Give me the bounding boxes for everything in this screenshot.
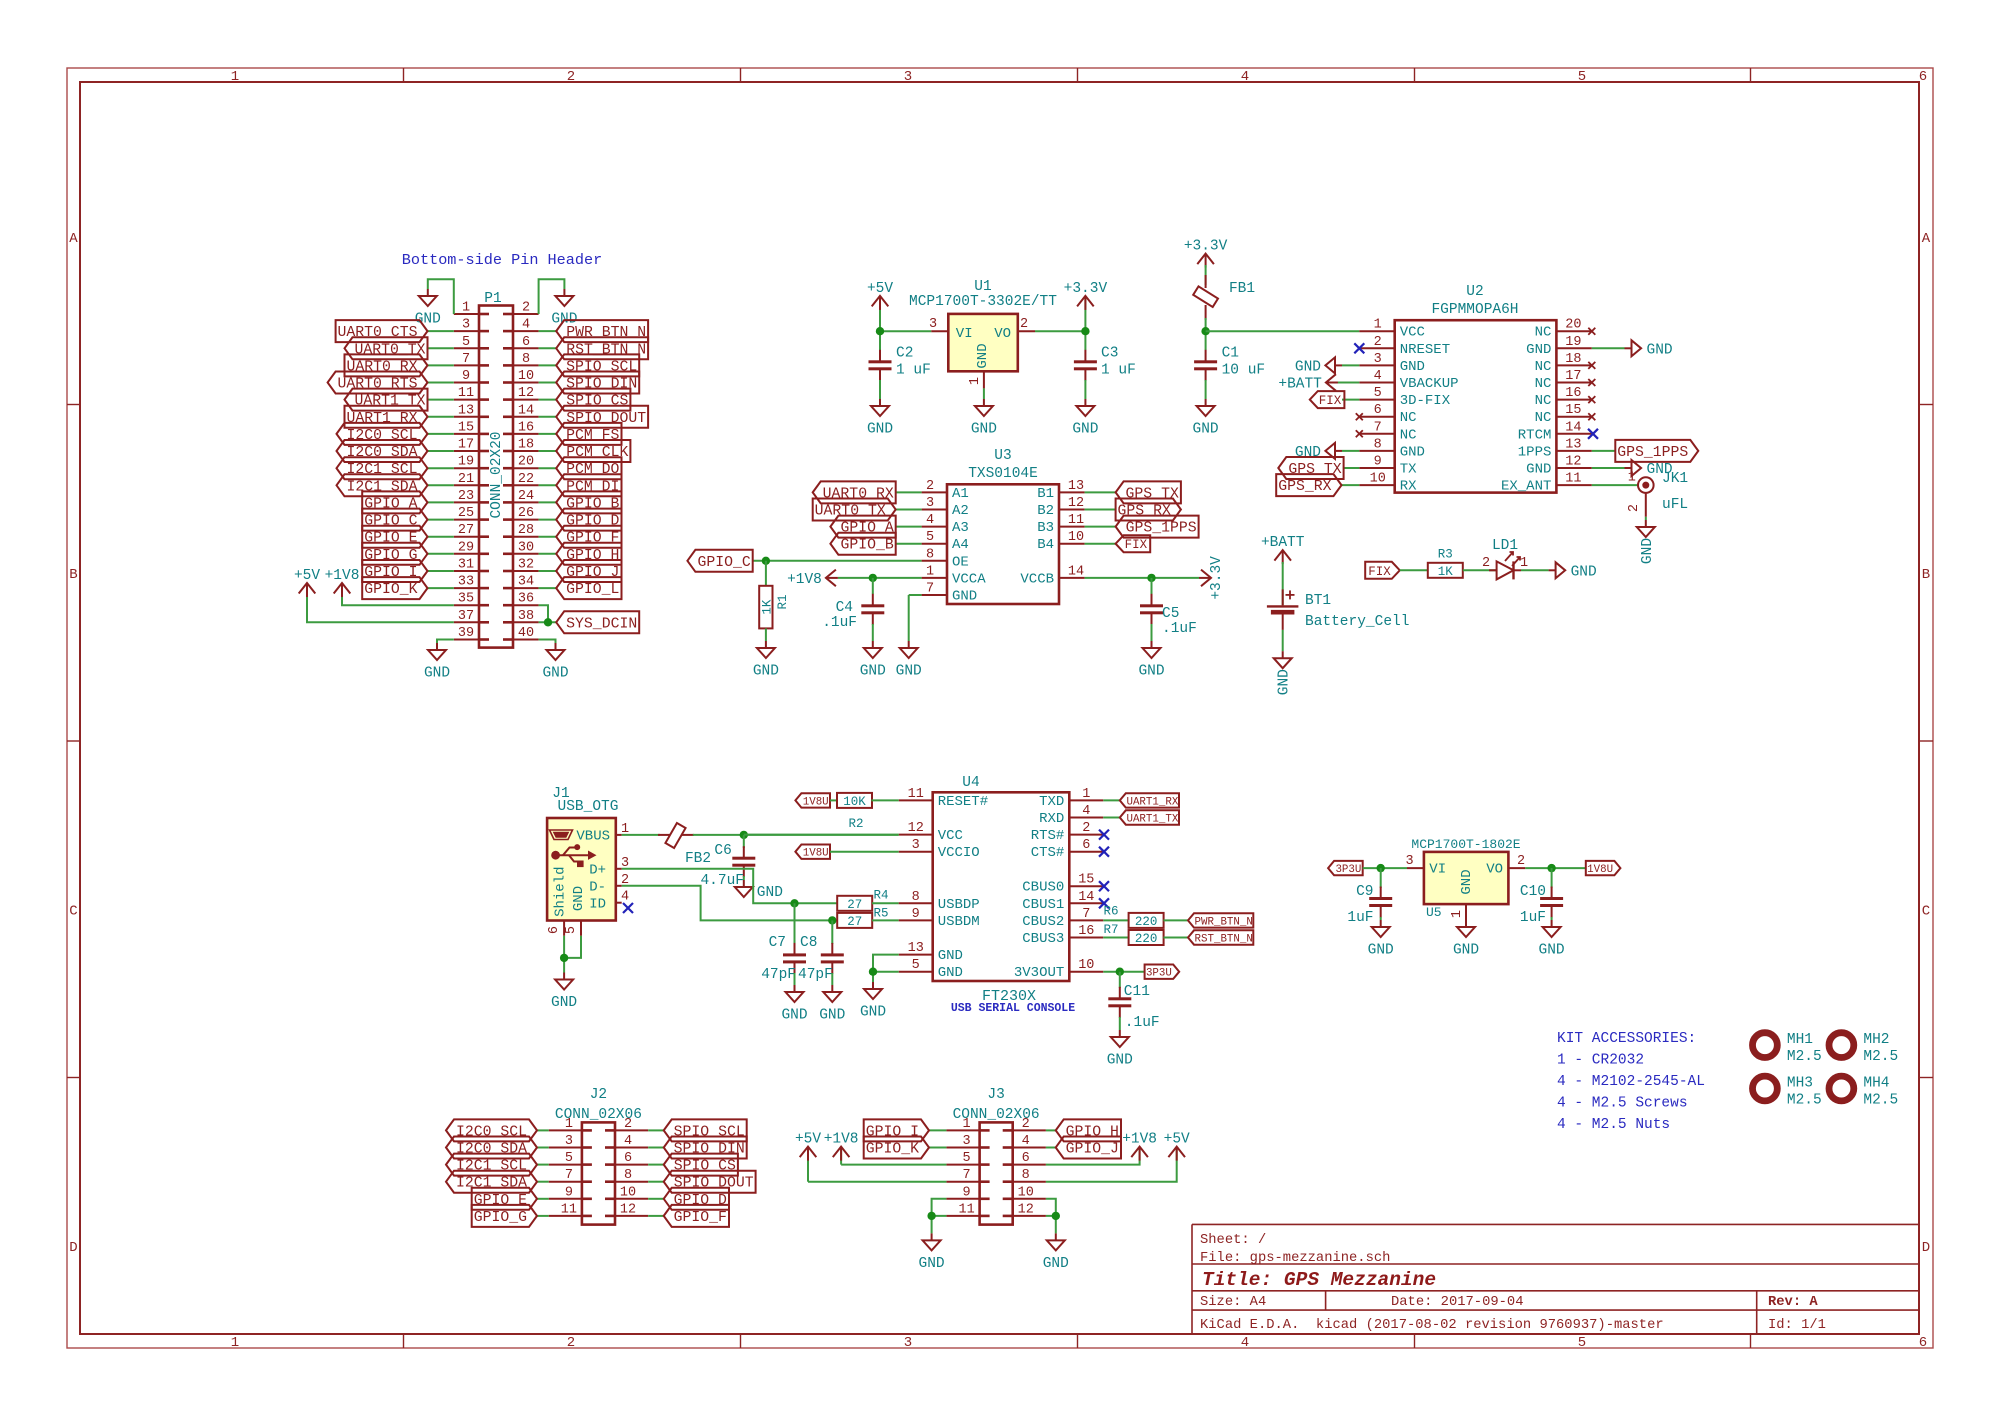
svg-text:B3: B3 [1037, 520, 1054, 536]
svg-text:21: 21 [458, 472, 474, 487]
svg-text:1: 1 [1628, 471, 1636, 486]
global label 1V8U [1586, 861, 1621, 876]
wire [1338, 382, 1360, 384]
ground [1072, 399, 1098, 438]
svg-text:R1: R1 [776, 594, 790, 609]
junction [1377, 864, 1385, 872]
svg-text:UART1_RX: UART1_RX [346, 411, 417, 427]
svg-text:C2: C2 [896, 346, 913, 362]
wire [622, 869, 838, 904]
no-connect [1588, 362, 1595, 369]
svg-text:10K: 10K [843, 795, 866, 809]
wire [896, 491, 922, 493]
svg-text:13: 13 [1068, 479, 1084, 494]
wire [1163, 919, 1188, 921]
svg-text:3: 3 [904, 69, 912, 85]
wire [539, 621, 557, 623]
svg-text:USB SERIAL CONSOLE: USB SERIAL CONSOLE [951, 1002, 1075, 1015]
power +5V [867, 281, 893, 310]
global label 3P3U [1328, 861, 1363, 876]
svg-text:A: A [1922, 231, 1931, 247]
svg-text:C3: C3 [1101, 346, 1118, 362]
wire [428, 536, 454, 538]
global label GPIO_D [556, 509, 621, 531]
svg-text:2: 2 [624, 1117, 632, 1132]
wire [428, 467, 454, 469]
svg-text:19: 19 [458, 455, 474, 470]
global label PCM_DO [556, 457, 621, 479]
global label GPIO_H [556, 543, 621, 565]
svg-text:8: 8 [624, 1168, 632, 1183]
svg-text:.1uF: .1uF [822, 615, 857, 631]
wire [873, 972, 899, 982]
wire [1551, 917, 1553, 920]
wire [428, 484, 454, 486]
svg-text:9: 9 [1374, 455, 1382, 470]
wire [1205, 380, 1207, 399]
svg-text:10 uF: 10 uF [1222, 363, 1266, 379]
svg-text:VO: VO [1486, 862, 1503, 878]
junction [927, 1212, 935, 1220]
svg-text:+3.3V: +3.3V [1064, 281, 1108, 297]
wire [1206, 330, 1360, 332]
svg-text:OE: OE [952, 554, 969, 570]
svg-text:1V8U: 1V8U [1587, 864, 1613, 876]
svg-text:GPS_RX: GPS_RX [1118, 504, 1171, 520]
wire [896, 509, 922, 511]
wire [648, 1164, 664, 1166]
svg-text:23: 23 [458, 489, 474, 504]
svg-text:20: 20 [518, 455, 534, 470]
wire [563, 936, 565, 973]
wire [908, 595, 910, 641]
svg-text:GND: GND [1647, 342, 1673, 358]
wire [428, 416, 454, 418]
svg-text:4 - M2.5 Screws: 4 - M2.5 Screws [1557, 1096, 1688, 1112]
svg-text:J2: J2 [590, 1087, 607, 1103]
title block [1192, 1224, 1919, 1334]
wire [428, 399, 454, 401]
svg-text:+1V8: +1V8 [1122, 1132, 1157, 1148]
svg-text:CBUS3: CBUS3 [1022, 931, 1064, 947]
global label SYS_DCIN [556, 611, 639, 633]
svg-text:2: 2 [1627, 504, 1642, 512]
svg-text:2: 2 [522, 301, 530, 316]
global label SPIO_SCL [556, 354, 639, 376]
global label RST_BTN_N [1188, 930, 1253, 945]
svg-text:3: 3 [926, 496, 934, 511]
svg-text:.1uF: .1uF [1162, 621, 1197, 637]
svg-text:4: 4 [1241, 1335, 1249, 1351]
global label UART1_RX [345, 406, 428, 428]
wire [539, 364, 557, 366]
wire [932, 1199, 947, 1216]
svg-text:UART0_TX: UART0_TX [815, 504, 886, 520]
wire [840, 1149, 842, 1165]
wire [1592, 484, 1639, 486]
svg-text:GND: GND [757, 885, 783, 901]
ferrite bead FB2 [658, 823, 711, 867]
wire [879, 380, 881, 399]
junction [1201, 327, 1209, 335]
global label GPIO_B [830, 533, 895, 555]
svg-text:27: 27 [458, 523, 474, 538]
global label PCM_FS [556, 423, 621, 445]
global label GPIO_L [556, 577, 621, 599]
svg-text:D: D [69, 1240, 77, 1256]
global label GPIO_G [362, 543, 427, 565]
svg-text:16: 16 [1078, 924, 1094, 939]
svg-text:11: 11 [458, 386, 474, 401]
global label GPS_TX [1278, 457, 1343, 479]
svg-text:UART0_RTS: UART0_RTS [338, 377, 418, 393]
wire [1151, 624, 1153, 641]
wire [1046, 1149, 1177, 1182]
svg-text:GND: GND [542, 666, 568, 682]
svg-text:M2.5: M2.5 [1863, 1093, 1898, 1109]
svg-text:GPIO_L: GPIO_L [566, 582, 619, 598]
wire [1342, 364, 1359, 366]
wire [1342, 450, 1359, 452]
global label UART1_TX [345, 389, 428, 411]
wire [1521, 569, 1549, 571]
svg-text:I2C0_SCL: I2C0_SCL [456, 1124, 527, 1140]
wire [537, 1181, 549, 1183]
regulator U5 MCP1700T-1802E [1405, 837, 1525, 921]
wire [1380, 868, 1382, 888]
svg-text:UART0_RX: UART0_RX [823, 486, 894, 502]
note Bottom-side Pin Header [402, 251, 603, 269]
wire [1085, 491, 1116, 493]
wire [794, 903, 796, 944]
svg-text:File: gps-mezzanine.sch: File: gps-mezzanine.sch [1200, 1250, 1390, 1266]
svg-text:J3: J3 [987, 1087, 1004, 1103]
svg-text:GPIO_E: GPIO_E [474, 1193, 527, 1209]
global label GPS_1PPS [1116, 516, 1199, 538]
junction [762, 557, 770, 565]
svg-text:GPIO_I: GPIO_I [364, 565, 417, 581]
svg-text:SPIO_CS: SPIO_CS [566, 394, 628, 410]
mounting hole MH4 [1829, 1076, 1898, 1109]
svg-text:FB2: FB2 [685, 851, 711, 867]
svg-text:1V8U: 1V8U [803, 796, 829, 808]
svg-text:GND: GND [1107, 1053, 1133, 1069]
svg-text:14: 14 [1078, 890, 1094, 905]
svg-text:11: 11 [1068, 513, 1084, 528]
svg-text:ID: ID [589, 897, 606, 913]
wire [428, 279, 454, 314]
global label PCM_DI [556, 474, 621, 496]
global label I2C1_SDA [446, 1171, 537, 1193]
svg-text:35: 35 [458, 592, 474, 607]
wire [1342, 399, 1359, 401]
svg-text:UART0_TX: UART0_TX [354, 342, 425, 358]
svg-text:7: 7 [1082, 907, 1090, 922]
wire [648, 1198, 664, 1200]
hierarchical label FIX [1310, 391, 1345, 408]
svg-text:MCP1700T-1802E: MCP1700T-1802E [1411, 837, 1520, 852]
svg-text:I2C1_SCL: I2C1_SCL [456, 1159, 527, 1175]
wire [880, 330, 931, 332]
global label GPIO_E [362, 526, 427, 548]
svg-text:PCM_DI: PCM_DI [566, 479, 619, 495]
wire [1085, 526, 1116, 528]
svg-text:GND: GND [1400, 359, 1425, 375]
svg-text:9: 9 [912, 907, 920, 922]
wire [428, 450, 454, 452]
global label GPS_1PPS [1615, 440, 1698, 462]
svg-text:Title: GPS Mezzanine: Title: GPS Mezzanine [1202, 1269, 1436, 1291]
svg-text:Id: 1/1: Id: 1/1 [1768, 1317, 1826, 1333]
svg-text:B2: B2 [1037, 503, 1054, 519]
wire [1400, 569, 1428, 571]
svg-text:USBDM: USBDM [938, 914, 980, 930]
svg-text:NC: NC [1535, 410, 1552, 426]
svg-text:C11: C11 [1124, 984, 1150, 1000]
ground [735, 880, 783, 901]
svg-text:8: 8 [522, 352, 530, 367]
svg-text:SPIO_SCL: SPIO_SCL [674, 1124, 745, 1140]
capacitor C5 [1140, 594, 1197, 637]
svg-text:5: 5 [1374, 386, 1382, 401]
svg-text:+BATT: +BATT [1261, 535, 1305, 551]
svg-text:GPIO_B: GPIO_B [840, 538, 893, 554]
svg-text:KiCad E.D.A. kicad (2017-08-0: KiCad E.D.A. kicad (2017-08-02 revision … [1200, 1317, 1664, 1333]
no-connect [623, 903, 633, 913]
svg-text:FGPMMOPA6H: FGPMMOPA6H [1431, 302, 1518, 318]
svg-text:C5: C5 [1162, 606, 1179, 622]
svg-text:C: C [1922, 904, 1930, 920]
svg-text:40: 40 [518, 626, 534, 641]
svg-text:1 - CR2032: 1 - CR2032 [1557, 1053, 1644, 1069]
power +3.3V [1199, 556, 1225, 600]
svg-text:USBDP: USBDP [938, 897, 980, 913]
wire [428, 347, 454, 349]
svg-text:1: 1 [926, 564, 934, 579]
global label GPIO_G [472, 1205, 537, 1227]
wire [743, 876, 745, 880]
svg-text:12: 12 [1068, 496, 1084, 511]
svg-text:GND: GND [753, 664, 779, 680]
svg-text:B1: B1 [1037, 486, 1054, 502]
svg-text:3: 3 [929, 317, 937, 332]
svg-text:I2C1_SDA: I2C1_SDA [346, 479, 417, 495]
svg-text:+5V: +5V [1164, 1132, 1190, 1148]
svg-text:+5V: +5V [294, 568, 320, 584]
wire [1151, 578, 1153, 594]
wire [539, 347, 557, 349]
svg-text:UART1_TX: UART1_TX [354, 394, 425, 410]
global label SPIO_CS [556, 389, 630, 411]
USB-serial U4 FT230X [899, 775, 1104, 1005]
wire [693, 834, 899, 836]
wire [1344, 467, 1360, 469]
no-connect [1588, 429, 1598, 439]
svg-text:SPIO_DIN: SPIO_DIN [566, 377, 637, 393]
svg-text:GPIO_C: GPIO_C [364, 514, 417, 530]
svg-text:A4: A4 [952, 537, 969, 553]
power +3.3V [1184, 239, 1228, 268]
wire [539, 587, 557, 589]
svg-text:+BATT: +BATT [1278, 377, 1322, 393]
wire [1085, 543, 1116, 545]
svg-text:FIX: FIX [1319, 394, 1342, 408]
wire [872, 902, 899, 904]
svg-text:GND: GND [1043, 1256, 1069, 1272]
svg-text:R6: R6 [1103, 905, 1118, 919]
svg-text:9: 9 [963, 1185, 971, 1200]
ground [867, 399, 893, 438]
global label SPIO_SCL [664, 1119, 747, 1141]
wire [873, 955, 899, 972]
svg-text:NC: NC [1535, 325, 1552, 341]
connector J2 CONN_02X06 [549, 1087, 649, 1225]
svg-text:3: 3 [1374, 352, 1382, 367]
svg-text:TXS0104E: TXS0104E [968, 466, 1038, 482]
resistor R7 [1103, 923, 1163, 946]
wire [879, 299, 881, 350]
svg-text:5: 5 [462, 335, 470, 350]
ground [1295, 443, 1342, 461]
svg-text:37: 37 [458, 609, 474, 624]
svg-text:6: 6 [624, 1151, 632, 1166]
global label UART1_RX [1120, 793, 1179, 808]
svg-text:NC: NC [1400, 427, 1417, 443]
svg-text:SPIO_SCL: SPIO_SCL [566, 359, 637, 375]
svg-text:GPIO_D: GPIO_D [566, 514, 619, 530]
global label GPIO_F [664, 1205, 729, 1227]
wire [428, 330, 454, 332]
svg-text:VI: VI [956, 326, 973, 342]
svg-text:5: 5 [1578, 1335, 1586, 1351]
wire [1103, 971, 1144, 973]
global label GPIO_I [362, 560, 427, 582]
svg-text:GPIO_B: GPIO_B [566, 496, 619, 512]
svg-text:GND: GND [1400, 444, 1425, 460]
wire [1282, 562, 1284, 605]
svg-text:39: 39 [458, 626, 474, 641]
svg-text:NC: NC [1400, 410, 1417, 426]
resistor R1 [759, 586, 790, 629]
svg-text:2: 2 [567, 1335, 575, 1351]
wire [1282, 630, 1284, 651]
svg-text:U4: U4 [962, 775, 979, 791]
ground [860, 982, 886, 1021]
wire [539, 570, 557, 572]
svg-text:TX: TX [1400, 462, 1417, 478]
svg-text:A1: A1 [952, 486, 969, 502]
svg-text:GPIO_K: GPIO_K [866, 1142, 919, 1158]
svg-text:15: 15 [458, 420, 474, 435]
no-connect [1588, 379, 1595, 386]
svg-text:6: 6 [547, 926, 562, 934]
power +1V8 [1122, 1132, 1157, 1161]
svg-text:10: 10 [1068, 530, 1084, 545]
global label I2C0_SCL [337, 423, 428, 445]
svg-text:Size: A4: Size: A4 [1200, 1294, 1266, 1310]
svg-text:7: 7 [1374, 420, 1382, 435]
wire [428, 433, 454, 435]
wire [838, 577, 922, 579]
svg-text:R4: R4 [873, 889, 888, 903]
global label I2C1_SCL [446, 1154, 537, 1176]
svg-text:+3.3V: +3.3V [1209, 556, 1225, 600]
svg-text:3P3U: 3P3U [1146, 968, 1172, 980]
svg-text:GPIO_E: GPIO_E [364, 531, 417, 547]
wire [983, 388, 985, 399]
ground [551, 973, 577, 1012]
wire [1463, 569, 1497, 571]
svg-text:8: 8 [1374, 437, 1382, 452]
wire [1119, 972, 1121, 988]
svg-text:17: 17 [458, 438, 474, 453]
svg-text:30: 30 [518, 540, 534, 555]
svg-text:CBUS2: CBUS2 [1022, 914, 1064, 930]
svg-text:MH3: MH3 [1787, 1076, 1813, 1092]
wire [564, 936, 581, 958]
svg-text:3V3OUT: 3V3OUT [1014, 965, 1064, 981]
svg-text:10: 10 [620, 1185, 636, 1200]
power +5V [294, 568, 320, 597]
no-connect [1099, 830, 1109, 840]
svg-text:2: 2 [926, 479, 934, 494]
svg-text:7: 7 [565, 1168, 573, 1183]
wire [753, 560, 922, 562]
wire [539, 553, 557, 555]
wire [539, 484, 557, 486]
capacitor C11 [1108, 984, 1159, 1031]
global label UART1_TX [1120, 810, 1179, 825]
wire [539, 382, 557, 384]
global label GPIO_D [664, 1188, 729, 1210]
svg-text:B: B [1922, 567, 1930, 583]
wire [539, 416, 557, 418]
wire [830, 851, 899, 853]
svg-text:12: 12 [908, 821, 924, 836]
no-connect [1356, 430, 1363, 437]
wire [1046, 1199, 1056, 1216]
wire [428, 519, 454, 521]
svg-text:GND: GND [860, 664, 886, 680]
svg-text:11: 11 [958, 1202, 974, 1217]
svg-text:NRESET: NRESET [1400, 342, 1450, 358]
hierarchical label FIX [1365, 562, 1400, 579]
wire [539, 279, 565, 314]
wire [909, 594, 922, 596]
no-connect [1099, 881, 1109, 891]
svg-text:22: 22 [518, 472, 534, 487]
svg-text:17: 17 [1565, 369, 1581, 384]
ground [781, 985, 807, 1024]
svg-text:34: 34 [518, 575, 534, 590]
svg-text:10: 10 [1370, 472, 1386, 487]
svg-text:RX: RX [1400, 479, 1417, 495]
svg-text:B4: B4 [1037, 537, 1054, 553]
svg-text:GPS_TX: GPS_TX [1126, 486, 1179, 502]
wire [622, 834, 660, 836]
svg-text:D-: D- [589, 879, 606, 895]
global label GPIO_C [362, 509, 427, 531]
wire [428, 364, 454, 366]
connector P1 CONN_02X20 [454, 291, 539, 648]
svg-text:UART1_RX: UART1_RX [1126, 796, 1178, 808]
svg-text:1 uF: 1 uF [1101, 363, 1136, 379]
junction [740, 831, 748, 839]
svg-text:1K: 1K [760, 599, 774, 615]
svg-text:1: 1 [1520, 556, 1528, 571]
ground [1637, 520, 1656, 564]
svg-text:26: 26 [518, 506, 534, 521]
